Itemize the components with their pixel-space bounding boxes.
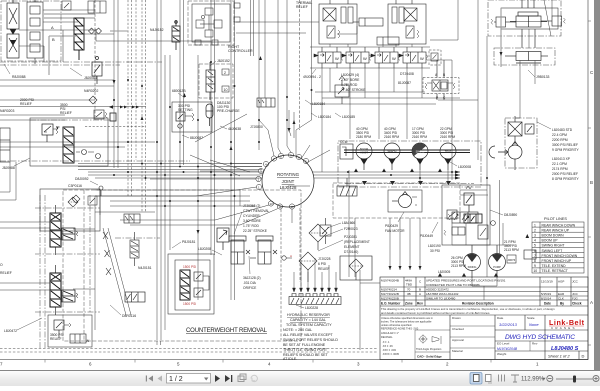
label J8J0088 [2,158,30,170]
svg-text:J9B0133: J9B0133 [536,75,549,79]
label N4R0202 [84,89,98,93]
svg-text:COUNTERWEIGHT REMOVAL: COUNTERWEIGHT REMOVAL [186,328,268,334]
label N4R0203 [0,109,14,113]
svg-text:FRONT WINCH DOWN: FRONT WINCH DOWN [542,254,578,258]
svg-text:J7J0228: J7J0228 [318,257,331,261]
outrigger manifold dashed box lower-left [0,190,378,352]
svg-text:4: 4 [534,239,536,243]
valve V1 left swing control [7,0,19,34]
page number box [167,374,211,384]
svg-text:REFERENCE-NONE THIS -2X0: REFERENCE-NONE THIS -2X0 [381,327,419,331]
relief valve in 300psi box [176,112,194,128]
pilot table rows [533,223,577,273]
rotating joint port 2 [256,176,261,181]
svg-text:D8J0092: D8J0092 [75,177,89,181]
node B [52,37,55,42]
label pump P2 specs [384,127,399,139]
svg-text:Checked: Checked [452,327,464,331]
svg-text:BOOM UP: BOOM UP [542,239,559,243]
svg-text:22.25" STROKE: 22.25" STROKE [243,229,268,233]
valve V4 stack dark mid-left [63,127,74,163]
svg-text:3000 PSI RELIEF: 3000 PSI RELIEF [552,143,578,147]
label L8J0429 block [341,73,366,92]
revision row 2 [381,288,449,292]
label J9B0133 [528,70,549,79]
svg-text:11: 11 [279,205,282,209]
svg-text:Scale: Scale [527,316,535,320]
sheet cell [548,354,570,359]
fan motor circuit box [333,183,460,218]
svg-text:L8J0480 S: L8J0480 S [551,346,579,352]
filter diamond F2 [299,252,317,282]
accumulator D8J1130 pill [206,104,213,126]
label ...SWING text left margin [0,263,12,275]
rotating joint port 8 [278,153,283,158]
label L8J0184 leader [305,100,325,106]
svg-text:L8J0185: L8J0185 [342,115,355,119]
svg-text:2160 RPM: 2160 RPM [384,135,399,139]
label P2J0281 replacement element [318,235,370,254]
wire horizontal bus into rotating joint [0,142,460,206]
relief small in cw valve box [194,272,209,297]
main pump assembly right [505,118,537,168]
relief valve 3500psi [42,124,60,142]
label L8J0008 [450,162,471,169]
svg-text:JCC: JCC [572,292,579,296]
svg-text:BE SET AT FULL ENGINE: BE SET AT FULL ENGINE [283,343,326,347]
cw port circle [282,254,292,260]
svg-text:SETTING: SETTING [178,108,193,112]
grid letters right [590,70,594,305]
pump P2 winch [384,143,400,170]
front winch motor assembly [319,0,357,44]
svg-text:SWING PORT RELIEFS SHOULD: SWING PORT RELIEFS SHOULD [283,338,338,342]
accumulator 300psi setting box [172,102,212,132]
svg-text:CTWT REMOVAL: CTWT REMOVAL [243,209,269,213]
svg-text:Date: Date [544,302,551,306]
right gutter [594,0,600,370]
pressure reducing valve center [335,76,349,104]
sheet border right [587,0,589,360]
valve N4J0152 [172,20,180,50]
solenoid enclosure J8J0152 [199,64,233,98]
svg-text:J8J0084: J8J0084 [84,76,97,80]
svg-text:30 PSI: 30 PSI [430,249,440,253]
svg-text:.X ± .1: .X ± .1 [382,340,390,344]
svg-text:2160 RPM: 2160 RPM [412,135,427,139]
label J7J0228 6 PSI RELIEF [318,257,331,271]
svg-text:P8J0449: P8J0449 [420,234,433,238]
svg-text:Drawn: Drawn [452,316,461,320]
size letter D [582,354,585,359]
valve V5 inside J8J0152 [206,62,215,100]
svg-text:TOTAL SYSTEM CAPACITY: TOTAL SYSTEM CAPACITY [286,323,332,327]
svg-text:112.99%: 112.99% [521,377,545,383]
label L8J0185 [335,113,355,119]
svg-text:1500 PSI: 1500 PSI [183,265,196,269]
check valve in manifold [76,150,101,159]
label L8J0190 30 PSI [428,244,441,253]
svg-text:PUMP: PUMP [493,265,501,269]
wire arrows under fan box [389,266,499,277]
label D8J1130 100 PSI PRE-CHARGE [217,101,240,113]
svg-text:2113 RPM: 2113 RPM [504,248,519,252]
svg-text:6 PSI: 6 PSI [318,262,326,266]
label COUNTERWEIGHT REMOVAL [186,328,268,334]
svg-text:Material: Material [452,349,463,353]
wire feeds to rotating joint [95,120,330,225]
svg-text:B: B [419,288,421,292]
fan relief valve [320,218,331,244]
label 3500 PSI RELIEF [60,103,72,115]
label 36J2128 orifice [243,256,261,290]
svg-text:2113 RPM: 2113 RPM [451,264,466,268]
svg-text:N4R0202: N4R0202 [84,89,98,93]
svg-text:TELE. EXTEND: TELE. EXTEND [542,264,567,268]
rear winch motor assembly [388,0,426,44]
manifold block mid-left J8J0088 [30,118,108,166]
svg-text:SIMILAR TO L8J0480: SIMILAR TO L8J0480 [426,296,456,300]
revision row 3 [381,292,579,296]
svg-text:2160 RPM: 2160 RPM [440,135,455,139]
svg-text:THROTTLE. SWING PORT: THROTTLE. SWING PORT [283,348,328,352]
svg-text:1500 PSI: 1500 PSI [183,302,196,306]
svg-text:P8J0181: P8J0181 [182,240,195,244]
svg-text:Third Angle Projection: Third Angle Projection [416,347,442,351]
svg-text:88J0087: 88J0087 [190,136,203,140]
svg-text:L8J0208: L8J0208 [198,247,211,251]
wire dashed below joint [299,208,301,282]
svg-text:Rev: Rev [532,342,538,346]
svg-text:EO Level: EO Level [497,342,510,346]
svg-text:70: 70 [407,288,411,292]
svg-text:W: W [392,56,396,61]
svg-text:CONTROLLER: CONTROLLER [228,49,253,53]
label 48J0638 [220,126,241,131]
title block frame [380,277,588,360]
pilot relief above DTJ0408 [429,50,441,65]
label J8J0084 [70,68,97,80]
rotating joint port 7 [271,156,276,161]
svg-text:22.4 GPM: 22.4 GPM [552,133,567,137]
svg-text:5: 5 [177,362,180,367]
directional valve DV2 [342,47,371,68]
EO level cell [497,342,538,346]
label 81J0087 [398,81,411,85]
svg-text:TELE. RETRACT: TELE. RETRACT [542,269,568,273]
svg-text:2174 RPM: 2174 RPM [552,167,568,171]
wire dash-dot manifold outlines left [0,62,190,238]
pilot lines table [532,222,584,273]
svg-text:DTJ0408: DTJ0408 [400,72,414,76]
svg-text:Weight: Weight [497,352,506,356]
svg-text:D7J0140): D7J0140) [344,250,358,254]
label D8R0116 [110,305,136,318]
svg-text:DECIMAL: DECIMAL [381,335,393,339]
left assembly box lower [40,189,100,231]
svg-text:P8J0429: P8J0429 [385,224,398,228]
boom valve assembly J9B0133 dash-dot enclosure [488,0,561,65]
svg-text:SWING: SWING [468,265,477,269]
svg-text:W: W [363,56,367,61]
counterweight cylinder 2 [256,236,273,264]
svg-text:3: 3 [260,170,262,174]
label P8J0449 [420,222,438,238]
boom valve right solenoid [541,16,565,26]
svg-text:CRANES: CRANES [551,326,577,330]
boom holding valve center block [510,0,547,48]
directional valve DV3 [371,47,400,68]
boom valve inner frame [501,8,558,29]
relief block L8J0472 [48,315,92,347]
brake cylinder upper [353,18,383,26]
sheet border bottom [0,359,588,361]
label 1500 PSI red upper [183,265,196,269]
svg-text:2200 RPM: 2200 RPM [552,138,568,142]
date value blue [499,322,518,327]
svg-text:L8J0429 (4): L8J0429 (4) [341,73,359,77]
svg-text:HYDRAULIC RESERVOIR: HYDRAULIC RESERVOIR [287,313,330,317]
brake cylinder lower [377,37,399,45]
label PILOT LINES [544,217,567,221]
svg-text:NOTE: = 200 GAL: NOTE: = 200 GAL [283,328,312,332]
svg-text:Sheet 1 of 2: Sheet 1 of 2 [548,354,570,359]
svg-text:77.60" STROKE: 77.60" STROKE [341,88,366,92]
zoom dropdown arrow [542,378,546,380]
svg-text:10: 10 [270,202,274,206]
directional valve DTJ0408 [423,60,459,100]
pump P3 swing [412,143,428,170]
svg-text:J8J0088: J8J0088 [2,166,15,170]
svg-text:2: 2 [446,362,449,367]
line jump arrows [109,105,139,109]
port square 2 [222,69,229,75]
svg-text:3.60" BORE: 3.60" BORE [243,219,262,223]
reservoir return arrows [293,258,338,292]
label J8J0152 [210,59,230,66]
svg-text:M19740214: M19740214 [381,288,397,292]
svg-text:R8J0088: R8J0088 [12,75,26,79]
svg-text:3B: 3B [407,292,411,296]
svg-text:HOIST: HOIST [360,151,368,155]
counterbalance block lower [505,52,548,64]
cooler symbol upper [337,178,357,196]
valve V3 pilot operated dark [74,18,84,60]
grid numbers bottom [0,362,539,367]
svg-text:49J0594 - 2: 49J0594 - 2 [303,75,321,79]
wire diagonal feeds upper-left of joint [190,110,294,176]
svg-text:48J0638: 48J0638 [228,127,241,131]
valve small upper in cw box [124,214,140,223]
svg-text:A: A [290,254,292,258]
svg-text:9: 9 [534,264,536,268]
svg-text:J8J0152: J8J0152 [217,59,230,63]
counterweight valve box P8J0181 [168,254,214,314]
svg-text:8 GPM PRIORITY: 8 GPM PRIORITY [552,177,580,181]
bypass box with diamond [340,256,372,280]
svg-text:ALL RELIEF VALVES EXCEPT: ALL RELIEF VALVES EXCEPT [283,333,333,337]
svg-text:J7J0368 (2): J7J0368 (2) [243,204,260,208]
right controller dashed enclosure [188,1,234,45]
wire junction dots [113,61,488,207]
rotating joint port 1 [256,184,261,189]
svg-text:.XX ± .06: .XX ± .06 [382,344,393,348]
revision row 4 [381,296,578,300]
svg-text:12/13/19: 12/13/19 [541,280,553,284]
revision row 1 [381,279,579,287]
drawing number L8J0480 S [551,346,579,352]
svg-text:unless otherwise specified.: unless otherwise specified. [381,323,412,327]
svg-text:L8J0184: L8J0184 [318,115,331,119]
label L8J0184 second [311,113,331,119]
label P8J0181 [172,240,195,248]
confidentiality fine print [381,307,555,315]
wire stubs below cw box [157,341,161,345]
label L8J0483 STD specs [537,122,580,152]
svg-text:81J0087: 81J0087 [398,81,411,85]
scale value blue [529,322,539,327]
svg-text:6: 6 [534,249,536,253]
wire dash-dot crossings lower-left [35,195,100,312]
page view icon 2 [486,375,493,384]
drawn cell [452,316,464,353]
svg-text:ROTATING: ROTATING [277,172,300,177]
weight cell [497,352,506,356]
port square 10 [222,86,229,92]
svg-text:Revision Description: Revision Description [462,302,494,306]
svg-text:F2R0023: F2R0023 [344,227,358,231]
check diamonds on A line [89,28,102,34]
wire lower-left links [0,196,131,330]
svg-text:Zone: Zone [405,302,413,306]
svg-text:CAPACITY = 144 GAL: CAPACITY = 144 GAL [290,318,326,322]
label 1500 PSI red lower [183,302,196,306]
main pump circle [489,142,522,171]
arrow on gray drop [500,52,503,56]
wire B line [0,30,146,127]
counterweight cylinder 1 [229,236,246,264]
svg-text:TELE: TELE [445,150,452,154]
svg-text:5: 5 [534,244,536,248]
svg-text:7: 7 [0,362,3,367]
label pump P4 specs [440,127,455,139]
svg-text:L8J0472: L8J0472 [4,329,17,333]
swing motor SM1 [464,245,481,278]
zoom slider track [556,378,593,380]
rotating joint port 12 [289,204,294,209]
label L8A1666 [327,221,355,228]
next page button [215,375,220,382]
right controller inner plate [192,4,230,42]
svg-text:10: 10 [533,269,537,273]
reservoir L8J0228 [289,294,341,305]
wire valve bank manifold [236,22,460,172]
pump P1 boom hoist [356,143,372,170]
relief valve with solenoid mid-left [94,110,116,121]
svg-text:RELIEF: RELIEF [20,102,32,106]
page view icon 4 [511,375,519,382]
svg-text:(REPLACEMENT: (REPLACEMENT [344,240,370,244]
svg-text:A: A [590,300,593,305]
svg-text:A: A [419,292,421,296]
label CAD Solid Edge [417,355,442,359]
check diamond N4R [89,96,97,104]
svg-text:RELIEF: RELIEF [318,267,330,271]
orifice X marks [246,250,277,258]
zoom slider handle [573,376,576,383]
svg-text:C: C [419,280,422,284]
svg-text:FJG: FJG [572,296,578,300]
svg-text:5/15/19: 5/15/19 [541,292,551,296]
svg-text:3: 3 [357,362,360,367]
pump drive group enclosure [338,141,481,187]
wire arrows on bus [113,56,461,234]
valve motor M1 front jack dark [50,205,78,255]
svg-text:O: O [0,263,3,267]
pump P4 tele [440,143,456,170]
label 300 PSI SETTING [178,104,193,112]
swing aux valve 2 [444,227,465,235]
svg-text:M19740204B: M19740204B [381,279,399,283]
wire dash-dot pilot pair lower-left [40,195,45,348]
svg-text:CAD - Solid Edge: CAD - Solid Edge [417,355,442,359]
swing port circle [491,221,496,226]
svg-text:2180 RPM: 2180 RPM [356,135,371,139]
svg-text:B: B [52,37,55,42]
svg-text:ANGULAR ± 1°: ANGULAR ± 1° [381,331,399,335]
solenoid valve in L8J0472 [70,334,90,343]
svg-text:By: By [560,302,564,306]
check valve D8J0092 symbol [99,186,103,196]
swing gearbox rect [524,250,536,259]
svg-text:22.1 GPM: 22.1 GPM [552,162,567,166]
valve small near accumulator [257,98,275,107]
label 3500 PSI RELIEF lower [50,333,64,341]
label 49J0594-2 [303,69,321,79]
svg-text:inches. The tolerances below: inches. The tolerances below are applica… [381,320,432,324]
svg-text:.031 DIA: .031 DIA [243,281,257,285]
svg-text:2000 PSI RELIEF: 2000 PSI RELIEF [552,172,578,176]
rotating joint port 9 [288,152,293,157]
svg-text:6: 6 [89,362,92,367]
valve V2 left swing control lower [7,34,19,58]
rotating joint port 5 [303,158,308,163]
jack valve left [125,292,145,302]
wire thick gray drop at x501 [500,8,502,67]
rotating joint port 10 [268,201,273,206]
svg-text:1: 1 [536,362,539,367]
svg-text:ORIFICE: ORIFICE [243,286,257,290]
manifold dash-dot box top-left [1,1,61,61]
fan motor inner box [388,190,422,212]
rotating joint port 4 [263,161,268,166]
node A [51,25,54,30]
label R8J0088 [4,64,26,79]
wire thick gray B path [49,31,128,75]
third angle projection symbol [419,335,442,345]
label F2R0023 [325,227,358,236]
label 2000 PSI RELIEF [20,98,34,106]
svg-text:N4J0152: N4J0152 [150,28,164,32]
prev page button [158,376,163,382]
svg-text:M19740204B: M19740204B [497,347,518,351]
directional valve DV4 [399,47,428,68]
scale cell [527,316,535,320]
svg-text:1: 1 [258,186,260,190]
label C3P0116 [68,184,82,188]
svg-text:Date: Date [497,316,504,320]
wire vertical pilot-line bundle center-left [114,0,312,340]
